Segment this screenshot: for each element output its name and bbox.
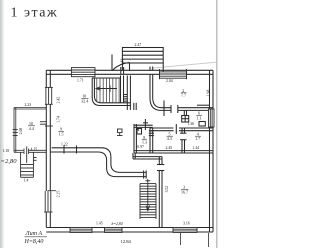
svg-text:2.04: 2.04 (166, 79, 173, 83)
svg-text:1.1: 1.1 (197, 115, 202, 120)
svg-text:1.45: 1.45 (96, 222, 103, 226)
svg-text:1.7: 1.7 (195, 136, 200, 141)
svg-text:1.44: 1.44 (193, 146, 200, 150)
svg-text:1.18: 1.18 (3, 149, 10, 153)
svg-text:4.4: 4.4 (29, 126, 34, 131)
svg-text:1.48: 1.48 (121, 59, 125, 66)
svg-text:1.36: 1.36 (187, 122, 194, 126)
svg-text:1.4: 1.4 (24, 178, 29, 182)
svg-text:1 этаж: 1 этаж (11, 6, 59, 21)
svg-text:3.52: 3.52 (165, 186, 169, 193)
svg-text:H=8,40: H=8,40 (24, 238, 44, 245)
svg-text:2.08: 2.08 (19, 128, 23, 135)
svg-text:1.3: 1.3 (142, 140, 147, 145)
svg-text:Лит А: Лит А (25, 231, 43, 237)
svg-text:2.15: 2.15 (57, 190, 61, 197)
svg-text:3.16: 3.16 (183, 222, 190, 226)
svg-text:32.4: 32.4 (81, 98, 88, 103)
svg-text:2.23: 2.23 (25, 103, 32, 107)
svg-text:7.7: 7.7 (181, 93, 186, 98)
svg-text:1.98: 1.98 (206, 90, 210, 97)
svg-text:1.71: 1.71 (77, 78, 84, 82)
svg-text:16.7: 16.7 (181, 189, 188, 194)
svg-text:12.84: 12.84 (121, 239, 132, 244)
svg-text:2.42: 2.42 (57, 97, 61, 104)
svg-text:2.45: 2.45 (166, 146, 173, 150)
svg-text:=2,80: =2,80 (1, 158, 18, 165)
svg-text:2.47: 2.47 (135, 43, 142, 47)
svg-text:4.3: 4.3 (167, 136, 172, 141)
svg-text:1.74: 1.74 (57, 116, 61, 123)
svg-text:1.22: 1.22 (61, 142, 68, 146)
svg-text:1.5: 1.5 (59, 131, 64, 136)
svg-text:4.15: 4.15 (31, 148, 38, 152)
svg-text:0.97: 0.97 (137, 145, 144, 149)
